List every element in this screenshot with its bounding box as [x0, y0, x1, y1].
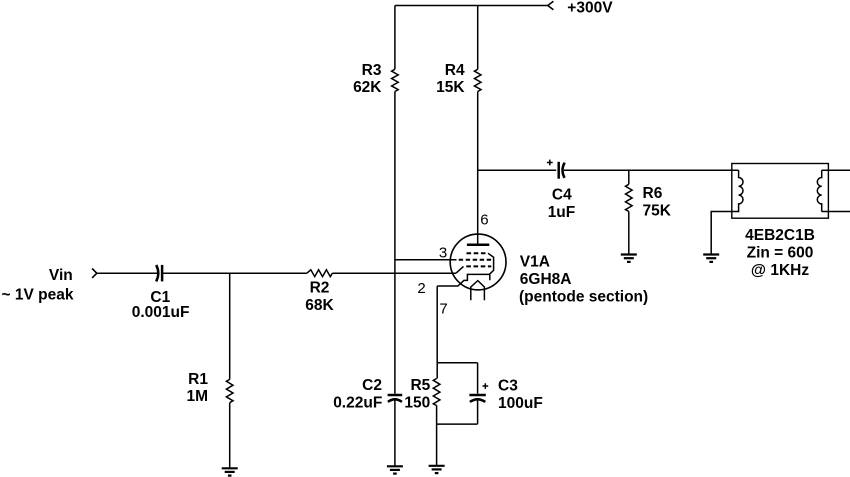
svg-text:R6: R6 — [643, 185, 663, 202]
wire C3 bottom — [477, 401, 479, 425]
resistor R2 — [307, 270, 333, 277]
ground R5 — [429, 466, 445, 473]
svg-text:15K: 15K — [436, 79, 465, 96]
wire C2 to ground — [394, 401, 396, 467]
svg-text:@ 1KHz: @ 1KHz — [751, 262, 809, 279]
capacitor C2 — [388, 395, 403, 402]
tube g1 lead diagonal — [456, 266, 464, 273]
svg-text:7: 7 — [439, 301, 447, 318]
transformer secondary coil — [817, 170, 821, 211]
tube grid g1 row (dashed) — [466, 265, 491, 267]
svg-text:Vin: Vin — [49, 267, 73, 284]
resistor R5 — [433, 379, 440, 406]
svg-text:1uF: 1uF — [548, 204, 576, 221]
svg-text:R3: R3 — [362, 62, 382, 79]
resistor R4 — [474, 69, 481, 91]
wire plate node to C4 — [478, 169, 557, 171]
wire secondary top — [822, 169, 850, 171]
wire R6 to ground — [628, 212, 630, 255]
wire R6 branch — [628, 170, 630, 184]
tube grid g2 row (dashed) — [459, 259, 492, 261]
tube g3 internal lead to cathode — [488, 253, 494, 280]
ground transformer — [703, 255, 719, 262]
tube plate — [467, 243, 489, 246]
wire R5/C3 bottom link — [437, 423, 478, 425]
ground R1 — [222, 468, 238, 475]
svg-text:+300V: +300V — [567, 0, 613, 17]
tube cathode — [437, 274, 490, 286]
wire rail to R4 — [477, 6, 479, 70]
svg-text:6GH8A: 6GH8A — [520, 271, 572, 288]
svg-text:62K: 62K — [353, 79, 382, 96]
svg-text:1M: 1M — [186, 388, 208, 405]
svg-text:Zin = 600: Zin = 600 — [747, 244, 814, 261]
terminal +300V chevron — [548, 1, 554, 10]
svg-text:4EB2C1B: 4EB2C1B — [745, 227, 815, 244]
wire top supply rail — [395, 5, 548, 7]
wire R5 to bottom link — [436, 406, 438, 425]
svg-text:C2: C2 — [362, 377, 382, 394]
svg-text:68K: 68K — [305, 297, 334, 314]
wire R3 to C2 — [394, 92, 396, 394]
svg-text:R4: R4 — [445, 62, 465, 79]
resistor R6 — [626, 184, 633, 211]
wire R1 to ground — [229, 403, 231, 469]
svg-text:~ 1V peak: ~ 1V peak — [2, 286, 74, 303]
wire screen grid lead from R3 branch — [395, 259, 457, 261]
terminal Vin chevron — [92, 269, 97, 279]
tube heater — [471, 281, 485, 301]
wire C3 top — [477, 363, 479, 394]
svg-text:V1A: V1A — [520, 254, 550, 271]
wire rail to R3 — [394, 6, 396, 70]
svg-text:C3: C3 — [498, 378, 518, 395]
svg-text:75K: 75K — [643, 202, 672, 219]
svg-text:3: 3 — [439, 245, 447, 262]
transformer primary coil — [711, 170, 743, 254]
capacitor C3 — [469, 383, 488, 402]
svg-text:R5: R5 — [410, 377, 430, 394]
svg-text:R2: R2 — [310, 279, 330, 296]
ground R6 — [621, 255, 637, 262]
svg-text:150: 150 — [404, 394, 430, 411]
tube grid g3 row (dashed) — [467, 252, 489, 254]
svg-text:100uF: 100uF — [498, 395, 543, 412]
resistor R3 — [392, 69, 399, 91]
wire secondary bottom — [822, 211, 850, 213]
wire R4 to plate node — [477, 92, 479, 245]
ground C2 — [387, 466, 403, 473]
wire C1 to R2 — [162, 272, 307, 274]
svg-text:C4: C4 — [552, 187, 572, 204]
wire R5/C3 top link — [437, 362, 478, 364]
wire C4 to transformer — [564, 169, 739, 171]
resistor R1 — [226, 379, 233, 402]
wire R5 to ground — [436, 424, 438, 466]
svg-text:0.22uF: 0.22uF — [333, 394, 382, 411]
capacitor C4 — [547, 160, 565, 179]
capacitor C1 — [156, 265, 162, 282]
svg-text:6: 6 — [480, 212, 488, 229]
wire Vin to C1 — [97, 272, 159, 274]
svg-text:(pentode section): (pentode section) — [519, 288, 648, 305]
wire cathode to R5 — [436, 286, 438, 379]
tube V1A envelope circle — [450, 234, 506, 290]
wire R1 branch — [229, 273, 231, 379]
transformer T1 box — [732, 164, 829, 219]
svg-text:0.001uF: 0.001uF — [132, 304, 190, 321]
svg-text:2: 2 — [417, 280, 425, 297]
svg-text:R1: R1 — [188, 371, 208, 388]
wire R2 to grid — [332, 272, 456, 274]
